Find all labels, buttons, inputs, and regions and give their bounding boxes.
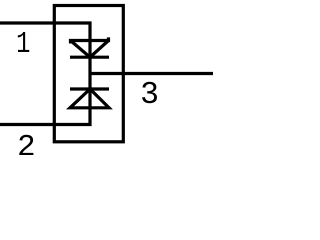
diode D2 (bottom, cathode to common node / anode down) (70, 89, 109, 109)
wire pin 3 (90, 72, 213, 75)
svg-text:3: 3 (140, 78, 159, 113)
node 3 wire segment (88, 57, 91, 91)
svg-text:2: 2 (17, 130, 35, 165)
wire pin 2 (0, 107, 90, 125)
wire pin 1 (0, 23, 90, 42)
diode D1 (top, anode up / cathode to common node) (70, 37, 109, 58)
package outline (54, 6, 123, 142)
svg-text:1: 1 (16, 27, 30, 62)
